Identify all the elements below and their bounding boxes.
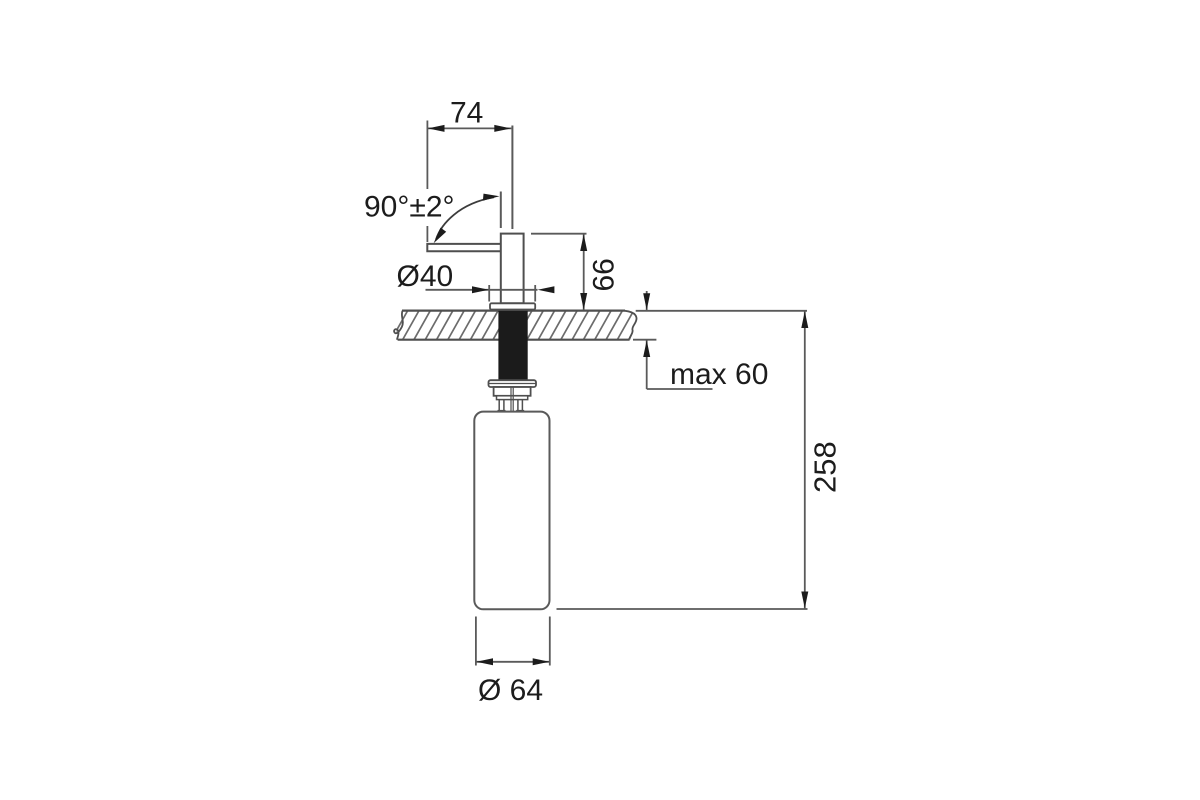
- angle arc upper arrowhead: [483, 194, 500, 201]
- dim 74: left arrowhead: [428, 125, 445, 132]
- svg-text:Ø 64: Ø 64: [478, 674, 543, 707]
- dim 258: dimension line: [804, 311, 806, 609]
- countertop right break line: [625, 311, 637, 340]
- angle arc lower arrowhead: [434, 228, 447, 244]
- suction tube right: [517, 400, 519, 412]
- suction tube left: [498, 400, 500, 412]
- centre tube: [510, 400, 512, 412]
- dim 258: bottom extension line: [557, 608, 808, 610]
- dim O64: right arrowhead: [533, 658, 550, 665]
- bottle: [474, 412, 549, 610]
- washer plate under countertop: [489, 380, 537, 387]
- svg-text:258: 258: [808, 441, 843, 493]
- pump plunger shaft left edge: [500, 192, 502, 229]
- countertop left break line: [394, 311, 403, 340]
- dim O64: dimension line: [476, 661, 550, 663]
- shared top extension line (countertop top, to the right): [636, 310, 807, 312]
- dim 66: top arrowhead: [580, 234, 587, 251]
- dim 258: top arrowhead: [801, 311, 808, 328]
- dim 66: bottom arrowhead: [580, 293, 587, 310]
- max60: shelf line: [647, 388, 713, 390]
- base flange above countertop: [490, 303, 535, 309]
- dim 66: dimension line: [583, 234, 585, 310]
- max60: upper arrow shaft: [646, 291, 648, 310]
- countertop top edge: [402, 310, 625, 312]
- svg-text:max 60: max 60: [670, 358, 768, 391]
- pump head body: [501, 234, 524, 304]
- dim O40: dimension line: [426, 289, 538, 291]
- dim O64: left arrowhead: [476, 658, 493, 665]
- dim 74: dimension line: [427, 127, 511, 129]
- dim O40: left arrowhead pointing right: [472, 286, 489, 293]
- locknut lower tier: [497, 396, 528, 400]
- washer mid line: [489, 383, 536, 385]
- mounting shaft (black) through countertop: [498, 311, 527, 380]
- spout arm: [427, 244, 501, 251]
- dim 74: left extension line upper segment: [426, 121, 428, 190]
- dim O64: right extension line: [549, 617, 551, 666]
- dim 258: bottom arrowhead: [801, 592, 808, 609]
- dim O40: left extension tick: [488, 285, 490, 302]
- svg-text:90°±2°: 90°±2°: [364, 191, 455, 224]
- max60: lower arrow shaft: [646, 341, 648, 390]
- max60: bottom extension tick: [633, 339, 656, 341]
- countertop bottom edge: [398, 339, 630, 341]
- dim 74: right arrowhead: [494, 125, 511, 132]
- max60: lower arrowhead pointing up: [643, 340, 650, 357]
- angle dim arc: [436, 197, 494, 239]
- countertop hatch: [391, 309, 658, 341]
- dim O40: right extension tick: [534, 285, 536, 302]
- dim 74: left extension line lower segment: [426, 226, 428, 242]
- dim O64: left extension line: [475, 617, 477, 666]
- max60: upper arrowhead pointing down: [643, 293, 650, 310]
- svg-text:66: 66: [588, 258, 621, 291]
- svg-text:74: 74: [450, 97, 483, 130]
- dim O40: right arrowhead pointing left: [538, 286, 555, 293]
- pump plunger shaft right edge / 74 right extension line: [511, 126, 513, 230]
- svg-text:Ø40: Ø40: [397, 260, 454, 293]
- dim 66: top extension line: [531, 233, 587, 235]
- nut centre facet lines: [510, 387, 512, 400]
- locknut: [494, 387, 531, 396]
- tube collar ticks: [498, 410, 506, 412]
